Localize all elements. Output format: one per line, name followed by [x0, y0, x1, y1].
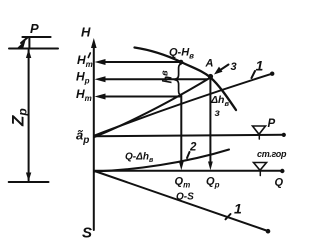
- svg-text:Hт: Hт: [77, 53, 93, 69]
- wire Q-dh curve 2: [95, 150, 230, 172]
- node brace h_v: [174, 64, 181, 96]
- wire arrow to pressure surface: [21, 38, 28, 44]
- wire line 1 upper: [95, 74, 273, 136]
- svg-text:3: 3: [231, 61, 237, 73]
- svg-text:S: S: [82, 225, 92, 242]
- wire H_p arrow line: [103, 78, 207, 80]
- wire stub between lines: [28, 38, 30, 48]
- wire Q-S line lower: [95, 171, 268, 231]
- svg-text:1: 1: [234, 201, 242, 217]
- wire vertical at Qp: [209, 79, 211, 163]
- node point A: [208, 74, 213, 79]
- wire piezometric line to P: [95, 135, 284, 137]
- wire arrow 3 pointer: [218, 65, 229, 72]
- node H axis: [93, 45, 95, 230]
- node Zp dimension line: [28, 50, 30, 181]
- wire datum line bottom left: [9, 181, 49, 183]
- wire Q-Hv pump curve: [135, 48, 237, 111]
- svg-text:ст.гор: ст.гор: [257, 149, 287, 159]
- svg-text:ãp: ãp: [76, 128, 89, 147]
- wire H_t arrow line: [103, 96, 180, 98]
- svg-text:Q-Δhв: Q-Δhв: [125, 152, 154, 165]
- node dot on curve at Qt: [179, 60, 184, 65]
- svg-text:Qp: Qp: [206, 176, 220, 190]
- wire pressure surface line: [9, 48, 58, 50]
- svg-text:1: 1: [256, 58, 264, 74]
- svg-text:Hp: Hp: [76, 70, 90, 86]
- svg-text:з: з: [215, 107, 221, 119]
- svg-text:hв: hв: [160, 70, 175, 84]
- wire line to A from origin: [95, 78, 211, 138]
- wire H't arrow line: [103, 61, 179, 63]
- svg-text:P: P: [30, 21, 39, 36]
- svg-text:Q: Q: [275, 177, 284, 189]
- svg-text:Hт: Hт: [76, 87, 92, 103]
- svg-text:H: H: [81, 25, 91, 40]
- wire vertical at Qt: [180, 96, 182, 164]
- svg-text:Qт: Qт: [175, 176, 191, 190]
- svg-text:A: A: [205, 58, 214, 70]
- svg-text:Q-Hв: Q-Hв: [169, 47, 194, 61]
- svg-text:P: P: [268, 118, 276, 130]
- node nabla static level mark: [254, 163, 267, 171]
- svg-text:Zp: Zp: [9, 108, 30, 127]
- node Q axis: [95, 170, 282, 172]
- wire line under P: [22, 36, 50, 38]
- node nabla P water mark: [253, 126, 266, 134]
